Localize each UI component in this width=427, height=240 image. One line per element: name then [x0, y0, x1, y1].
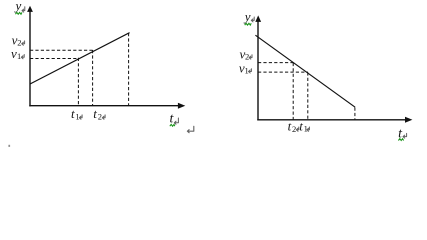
left graph x-axis arrowhead [178, 103, 185, 109]
left graph y-axis arrowhead [27, 6, 33, 12]
right graph x-axis [257, 119, 406, 121]
svg-text:2: 2 [17, 37, 21, 47]
svg-text:t: t [288, 118, 292, 133]
right graph falling line [255, 35, 355, 107]
svg-text:t: t [299, 118, 303, 133]
right label y green squiggle [245, 23, 252, 25]
paragraph mark after left figure [187, 126, 193, 132]
right dashed horizontal v2 level [258, 62, 294, 64]
svg-text:t: t [93, 106, 97, 121]
left dashed vertical t2 [92, 50, 94, 105]
left label t2 paragraph mark [102, 115, 105, 119]
right label v2 paragraph mark [249, 55, 252, 59]
left graph x-axis [29, 105, 179, 107]
svg-text:1: 1 [304, 124, 308, 134]
right label y paragraph mark [251, 17, 254, 22]
right graph y-axis [257, 20, 259, 121]
svg-text:2: 2 [245, 52, 249, 62]
svg-text:1: 1 [17, 51, 21, 61]
left label y paragraph mark [22, 7, 25, 12]
left label v1 paragraph mark [21, 55, 24, 59]
left dashed vertical t1 [77, 58, 79, 105]
left dashed vertical at line end [128, 33, 130, 105]
svg-text:1: 1 [75, 112, 79, 122]
right axis label t green squiggle [398, 139, 403, 141]
left dashed horizontal v2 level [30, 49, 93, 51]
svg-text:y: y [14, 0, 22, 13]
svg-text:t: t [71, 106, 75, 121]
right dashed vertical t2 [292, 63, 294, 120]
left graph rising line [30, 33, 130, 84]
svg-text:1: 1 [245, 65, 249, 75]
right graph x-axis arrowhead [405, 117, 412, 123]
svg-text:2: 2 [98, 112, 102, 122]
left graph y-axis [29, 10, 31, 107]
svg-text:y: y [243, 9, 251, 24]
left label t1 paragraph mark [79, 115, 82, 119]
right label t2 paragraph mark [296, 127, 299, 131]
right axis label t paragraph mark [403, 133, 407, 138]
left label y green squiggle [15, 12, 22, 14]
right label t1 paragraph mark [307, 127, 310, 131]
left label v2 paragraph mark [22, 41, 25, 45]
right dashed vertical t1 [307, 72, 309, 119]
svg-text:2: 2 [292, 124, 296, 134]
left axis label t paragraph mark [174, 118, 178, 124]
right dashed vertical at line end [354, 108, 356, 120]
partial paragraph mark bottom-left [8, 145, 10, 147]
left axis label t green squiggle [170, 124, 175, 126]
right label v1 paragraph mark [249, 69, 252, 73]
left dashed horizontal v1 level [30, 58, 79, 60]
right dashed horizontal v1 level [258, 71, 308, 73]
right graph y-axis arrowhead [255, 15, 261, 22]
